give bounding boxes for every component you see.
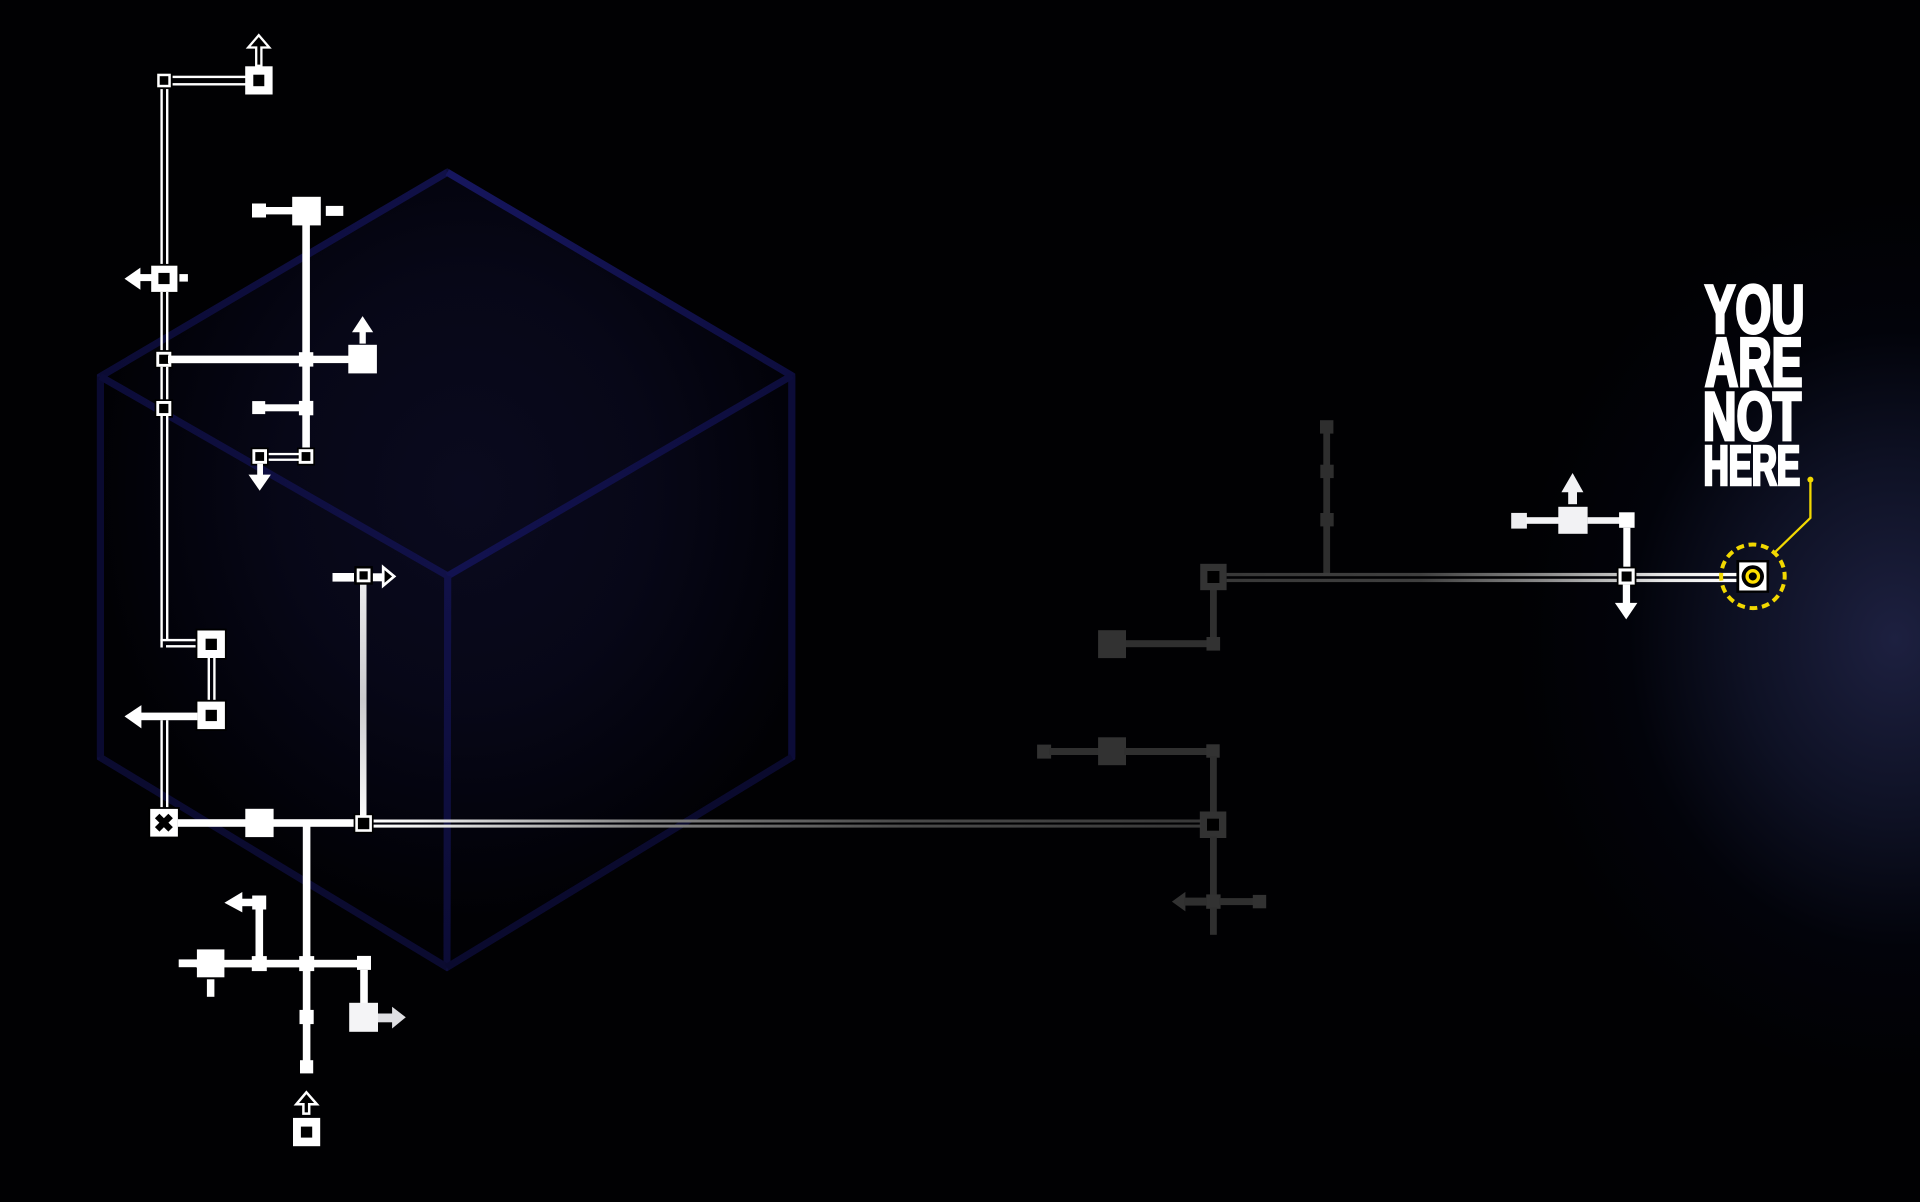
wire gray G6 to G7 bbox=[1049, 748, 1100, 755]
BOTTOM LEFT CLUSTER bbox=[179, 826, 406, 1146]
yellow callout line bbox=[1775, 482, 1811, 552]
dashed yellow circle bbox=[1717, 540, 1789, 612]
marker yellow ring bbox=[1747, 571, 1758, 582]
wire gray G9 down stub bbox=[1210, 908, 1217, 935]
gray small square G6 bbox=[1037, 745, 1051, 759]
yellow callout dot bbox=[1807, 477, 1813, 483]
gradient vertical line x363 bbox=[360, 583, 367, 816]
MARKER you-are-here bbox=[1717, 477, 1813, 613]
gray square low bbox=[1320, 513, 1333, 526]
wire S8 down to B6 bbox=[360, 970, 368, 1004]
gray small square G10 bbox=[1253, 895, 1266, 908]
small square S5 with left arrow bbox=[224, 892, 266, 912]
big square B1 with hole bbox=[245, 66, 272, 94]
wire S3 to S4 bbox=[263, 404, 300, 411]
cube outline base bbox=[100, 172, 791, 967]
gray square top bbox=[1320, 420, 1333, 433]
node S12 bbox=[1619, 512, 1635, 528]
hollow node H8 on line1 bbox=[1617, 567, 1637, 587]
wire gray G7 to G8 bbox=[1124, 748, 1208, 755]
wire double elbow top horizontal bbox=[160, 76, 246, 78]
wire elbow at 643 to square bbox=[160, 639, 197, 641]
gray big square G7 bbox=[1098, 737, 1126, 765]
hollow big square (211,644) bbox=[196, 629, 227, 660]
GRAY TREE bbox=[1037, 420, 1334, 935]
big square B7 bbox=[1558, 507, 1587, 534]
wire spine piece 4 bbox=[160, 416, 162, 648]
cube edge bottom-right bbox=[447, 757, 792, 967]
cube edge top-left bbox=[100, 172, 447, 376]
gray node G8 bbox=[1206, 744, 1219, 757]
hollow node H2 bbox=[155, 350, 173, 368]
cube edge top-right bbox=[447, 172, 792, 375]
dash right of B2 bbox=[326, 206, 344, 216]
hollow node H3 bbox=[155, 399, 173, 417]
big square B5 bbox=[197, 949, 225, 977]
big square B3 bbox=[348, 345, 377, 374]
big square B6 bbox=[349, 1003, 378, 1032]
top cluster: small square S1 bbox=[252, 204, 266, 218]
wire spine piece 2 bbox=[160, 292, 162, 352]
small square S4 bbox=[252, 401, 265, 414]
hollow node H7 on line2 bbox=[354, 814, 374, 834]
X node bbox=[148, 807, 179, 838]
left arrow at y716 bbox=[125, 705, 198, 728]
gray big square G5 bbox=[1098, 630, 1126, 658]
wire cross row y963.6 bbox=[196, 960, 364, 968]
dash left of B5 bbox=[179, 959, 199, 967]
RIGHT WHITE CLUSTER bbox=[1511, 473, 1637, 619]
elbow hollow node H1 bbox=[155, 72, 172, 89]
marker white square bbox=[1739, 562, 1766, 590]
wire long line2 bottom stripe bbox=[372, 825, 1201, 828]
hollow square H5 (306,456.5) bbox=[297, 448, 315, 466]
wire gray G9 to G10 bbox=[1219, 898, 1254, 905]
wire junction down x306 bbox=[303, 971, 311, 1061]
hollow big square (211,716) bbox=[196, 700, 227, 731]
wire S1 to B2 bbox=[264, 207, 294, 214]
background right glow bbox=[1280, 0, 1920, 1202]
text NOT bbox=[1706, 392, 1801, 441]
small square S11 bbox=[1511, 513, 1527, 529]
wire gray G4 to big square bbox=[1124, 640, 1208, 647]
gray node G4 bbox=[1207, 637, 1221, 651]
node S9 bbox=[300, 1010, 314, 1024]
hollow square H4 (259.7,456.5) bbox=[251, 448, 269, 466]
up arrow above B7 bbox=[1561, 473, 1583, 504]
down arrow below H4 bbox=[249, 464, 271, 491]
marker black circle bbox=[1742, 565, 1764, 587]
long line2 (x364 to x1213) bbox=[372, 820, 1201, 828]
text HERE bbox=[1706, 446, 1799, 485]
wire vertical x306 from B2 down bbox=[302, 225, 310, 450]
wire S12 down to H8 bbox=[1623, 528, 1630, 570]
node S2 bbox=[299, 352, 313, 366]
wire gray G8 down to H10 bbox=[1210, 756, 1217, 812]
cube edge right vertical bbox=[788, 376, 795, 758]
wire double vertical between squares x211 bbox=[208, 658, 210, 702]
node S3 bbox=[299, 401, 313, 415]
node with left arrow (164,278.7) bbox=[125, 264, 188, 294]
wire S11 to B7 bbox=[1526, 517, 1560, 524]
cube edge upper-right to center bbox=[448, 376, 792, 576]
outline up arrow (306,1090) bbox=[296, 1092, 317, 1113]
LEFT WHITE TREE bbox=[125, 35, 395, 838]
text YOU bbox=[1706, 285, 1802, 334]
wire S2 to B3 bbox=[313, 356, 349, 363]
hollow node H6 with right arrow bbox=[333, 566, 395, 586]
node S6 bbox=[252, 956, 267, 971]
gray hollow node H9 on line1 bbox=[1200, 564, 1226, 590]
wire vertical x306 (826 to 956) bbox=[303, 826, 311, 957]
right arrow from B6 bbox=[378, 1007, 406, 1029]
wire X row horizontal bbox=[178, 819, 364, 827]
wire spine lower piece bbox=[160, 720, 162, 809]
square with hole (306,1132) bbox=[293, 1118, 320, 1146]
cube edge bottom-left bbox=[100, 758, 447, 968]
big square B2 bbox=[292, 197, 321, 226]
outline up arrow above B1 bbox=[248, 35, 269, 66]
cube edge left vertical bbox=[97, 377, 104, 758]
node S10 bbox=[300, 1060, 313, 1073]
long line1 (x1227 to x1737) bbox=[1227, 573, 1738, 582]
wire horizontal (171,359) to (306,359) bbox=[168, 356, 306, 364]
big square B4 bbox=[245, 809, 273, 837]
TEXT you are not here bbox=[1706, 285, 1802, 486]
wire long line1 bottom stripe bbox=[1227, 579, 1738, 582]
text ARE bbox=[1706, 338, 1801, 386]
wire double H4-H5 bbox=[266, 453, 300, 455]
wire long line2 top stripe bbox=[372, 820, 1201, 823]
wire gray vertical upper x1326 bbox=[1323, 427, 1330, 575]
gray square mid bbox=[1320, 465, 1333, 478]
cube edge upper-left to center bbox=[100, 377, 447, 576]
cube edge center vertical bbox=[444, 576, 452, 967]
wire gray node1213 down to G4 bbox=[1210, 589, 1217, 639]
gray junction G9 bbox=[1206, 894, 1220, 908]
wire gray H10 down to G9 bbox=[1210, 837, 1217, 896]
gray left arrow bbox=[1172, 892, 1186, 912]
wire S6 up to S5 bbox=[256, 909, 264, 957]
cube face fill bbox=[100, 172, 791, 967]
wire spine piece 1 bbox=[160, 76, 162, 266]
node S8 bbox=[357, 956, 371, 970]
gray hollow node H10 on long line bbox=[1200, 812, 1227, 839]
wire spine piece 3 bbox=[160, 367, 162, 401]
up arrow above B3 bbox=[352, 316, 373, 343]
junction node S7 bbox=[299, 956, 314, 971]
down arrow below H8 bbox=[1615, 585, 1638, 620]
wire B7 to S12 bbox=[1588, 517, 1621, 524]
stub below B5 bbox=[207, 979, 215, 997]
wire long line1 top stripe bbox=[1227, 573, 1738, 576]
marker black square outline bbox=[1736, 560, 1769, 593]
